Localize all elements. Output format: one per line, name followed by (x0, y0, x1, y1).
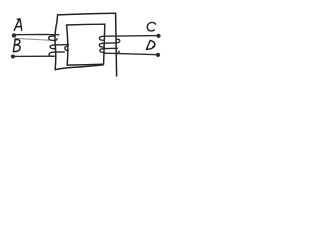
wire A faint double stroke (15, 38, 51, 40)
label B (13, 39, 20, 51)
wire B (13, 55, 54, 57)
wire D (104, 53, 158, 55)
label A (14, 19, 22, 31)
label D (146, 40, 154, 49)
terminal C dot (156, 34, 160, 38)
wire C (105, 35, 159, 38)
terminal D dot (156, 53, 160, 57)
wire A (14, 33, 59, 35)
terminal A dot (12, 33, 16, 37)
secondary winding L2 (right leg) (99, 36, 120, 53)
label C (147, 22, 156, 31)
primary winding L1 (left leg) (49, 36, 69, 56)
terminal B dot (11, 55, 15, 59)
transformer core outer rectangle (55, 13, 117, 76)
transformer core inner rectangle (67, 24, 105, 65)
